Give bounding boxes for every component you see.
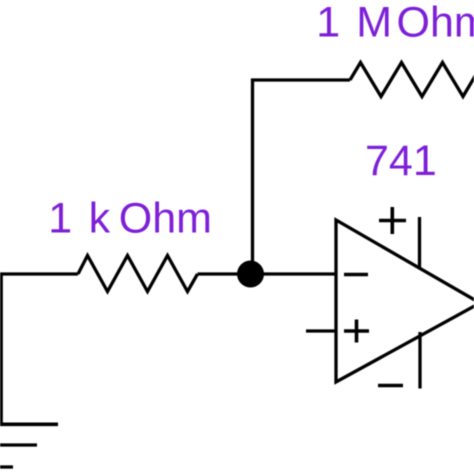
value label 1 k Ohm bbox=[48, 195, 212, 243]
op-amp V- minus label bbox=[378, 384, 403, 388]
svg-text:Ohm: Ohm bbox=[397, 0, 474, 47]
wire: node to op-amp inverting input bbox=[250, 272, 336, 275]
wire: feedback vertical from node up bbox=[251, 79, 254, 275]
op-amp V+ power pin bbox=[418, 217, 421, 268]
svg-text:1: 1 bbox=[316, 0, 340, 47]
resistor R2 (1 M Ohm) zigzag, cut off at right edge bbox=[350, 63, 474, 97]
wire: input from left edge to R1 bbox=[0, 272, 78, 275]
wire: non-inverting input stub bbox=[306, 329, 336, 332]
wire: R1 to summing node bbox=[198, 272, 251, 275]
svg-text:1: 1 bbox=[48, 195, 72, 243]
ground symbol bar 3 bbox=[0, 465, 13, 468]
value label 1 M Ohm bbox=[316, 0, 474, 47]
wire: ground vertical at left edge bbox=[0, 274, 3, 424]
wire: feedback top horizontal to R2 bbox=[251, 78, 350, 81]
op-amp V+ plus label bbox=[379, 207, 406, 234]
op-amp non-inverting input plus marker bbox=[344, 320, 369, 343]
svg-text:k: k bbox=[89, 195, 111, 243]
ground symbol bar 2 bbox=[0, 443, 37, 446]
svg-text:M: M bbox=[356, 0, 392, 47]
op-amp U1 triangle body bbox=[336, 220, 474, 382]
ground symbol bar 1 bbox=[0, 422, 58, 426]
op-amp inverting input minus marker bbox=[344, 273, 368, 277]
svg-text:Ohm: Ohm bbox=[119, 195, 212, 243]
op-amp V- power pin bbox=[418, 332, 421, 389]
svg-text:741: 741 bbox=[365, 137, 437, 185]
node: summing junction dot bbox=[237, 261, 264, 288]
resistor R1 (1 k Ohm) zigzag bbox=[78, 256, 198, 292]
